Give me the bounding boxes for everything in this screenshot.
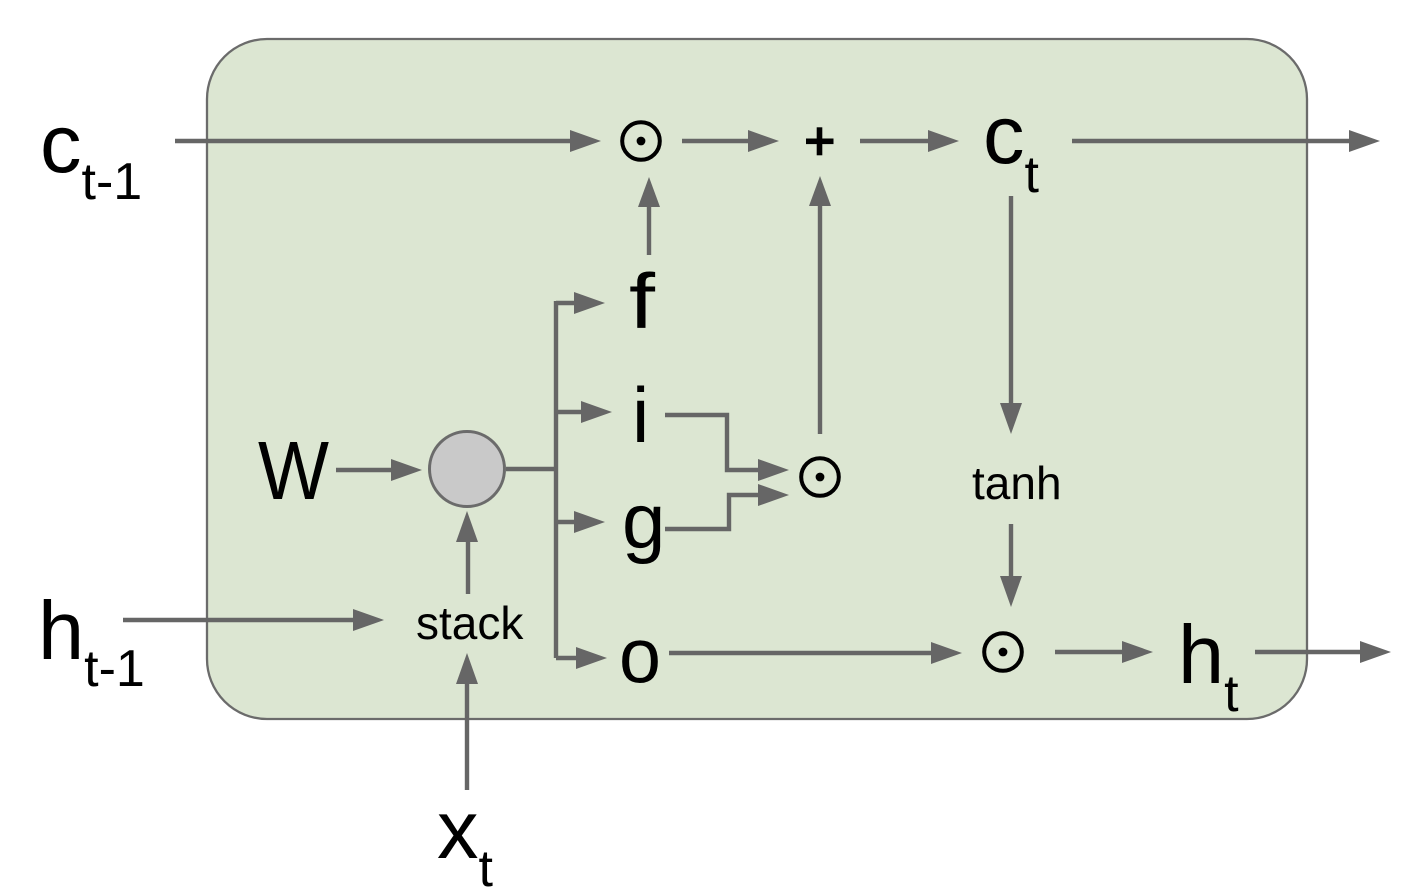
branch arrow to f — [556, 301, 577, 305]
wire branch trunk vertical — [554, 301, 558, 658]
arrowhead into plus — [748, 130, 779, 152]
wire o to mul3 — [669, 651, 932, 655]
wire plus to c_t — [860, 139, 930, 143]
arrow tanh down to mul3 — [1009, 524, 1013, 578]
node elementwise multiply 2 (odot middle, i*g) — [801, 458, 839, 496]
branch arrow to o — [556, 656, 579, 660]
svg-text:xt: xt — [437, 783, 494, 896]
arrow stack up to matmul circle — [466, 540, 470, 594]
arrow W to matmul circle — [336, 468, 393, 472]
arrowhead c_t output — [1349, 130, 1380, 152]
LSTM cell body (rounded green box) — [207, 39, 1307, 719]
arrowhead into c_t — [928, 130, 959, 152]
wire mul3 to h_t — [1055, 650, 1124, 654]
wire circle to branch trunk — [506, 467, 558, 471]
wire h_t output line — [1255, 650, 1361, 654]
node plus (add gate) — [806, 127, 834, 155]
arrowhead into elementwise-mul 1 — [570, 130, 601, 152]
svg-text:ht-1: ht-1 — [38, 584, 145, 698]
svg-text:tanh: tanh — [972, 457, 1062, 509]
svg-text:stack: stack — [416, 597, 524, 649]
wire g to mul2 (elbow) — [665, 495, 760, 529]
svg-text:ct-1: ct-1 — [40, 97, 142, 211]
arrow c_t down to tanh — [1009, 196, 1013, 404]
svg-text:W: W — [258, 424, 330, 517]
node elementwise multiply 3 (odot bottom, o*tanh) — [984, 633, 1022, 671]
svg-text:f: f — [629, 257, 655, 345]
wire i to mul2 (elbow) — [665, 415, 760, 470]
wire h_{t-1} to stack — [123, 618, 355, 622]
svg-text:o: o — [619, 611, 661, 699]
arrow mul2 up to plus — [818, 205, 822, 434]
node matmul (gray circle) — [430, 432, 505, 507]
arrow f up to mul1 — [647, 205, 651, 255]
wire mul1 to plus — [682, 139, 750, 143]
arrow x_t up to stack — [465, 682, 469, 790]
svg-text:g: g — [622, 477, 665, 565]
wire c_t output line — [1072, 139, 1350, 143]
branch arrow to g — [556, 520, 577, 524]
branch arrow to i — [556, 410, 584, 414]
wire c_{t-1} input line — [175, 139, 573, 143]
node elementwise multiply 1 (odot top) — [622, 122, 660, 160]
svg-text:i: i — [632, 371, 649, 459]
